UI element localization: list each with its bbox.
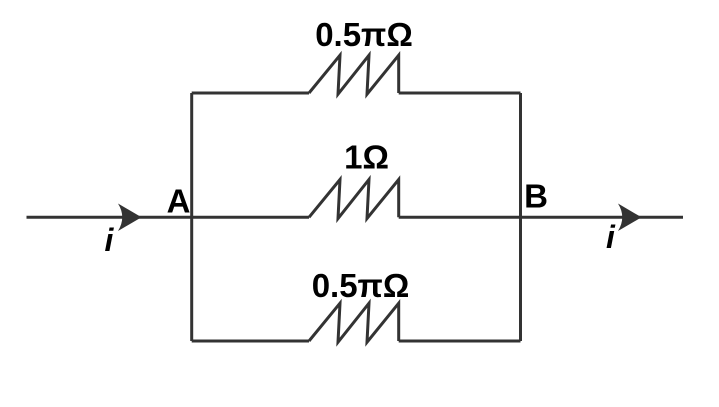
svg-text:i: i xyxy=(105,222,115,258)
svg-text:1Ω: 1Ω xyxy=(344,139,389,176)
wire: middle branch left segment (node A to resistor R2) xyxy=(192,216,309,219)
svg-text:0.5πΩ: 0.5πΩ xyxy=(315,16,413,53)
resistor R3 0.5*pi ohm (bottom branch zigzag) xyxy=(309,303,399,342)
current arrow head (left lead) xyxy=(118,204,142,232)
wire: middle branch right segment (resistor R2 to node B) xyxy=(399,216,521,219)
svg-text:B: B xyxy=(524,177,548,214)
svg-text:i: i xyxy=(606,219,616,255)
wire: right vertical (node B up/down to top and bottom branches) xyxy=(519,93,522,341)
svg-text:A: A xyxy=(167,182,191,219)
resistor R2 1ohm (middle branch zigzag) xyxy=(309,180,399,219)
wire: left lead into node A xyxy=(27,216,192,219)
current arrow head (right lead) xyxy=(618,204,642,232)
resistor R1 0.5*pi ohm (top branch zigzag) xyxy=(309,55,399,94)
wire: right lead out of node B xyxy=(521,216,684,219)
wire: bottom branch right segment xyxy=(399,340,521,343)
wire: top branch right segment xyxy=(399,92,521,95)
svg-text:0.5πΩ: 0.5πΩ xyxy=(312,267,410,304)
wire: left vertical (node A up/down to top and bottom branches) xyxy=(190,93,193,341)
wire: bottom branch left segment xyxy=(192,340,309,343)
wire: top branch left segment xyxy=(192,92,309,95)
